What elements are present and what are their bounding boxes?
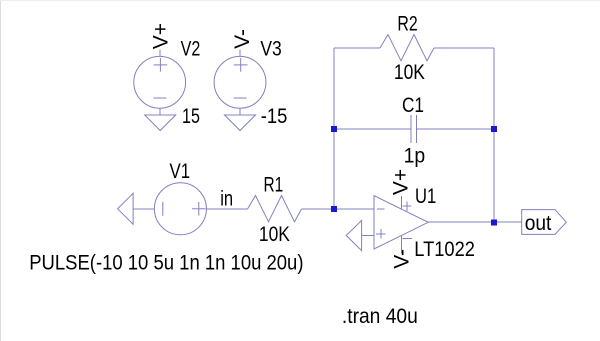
junction at inverting input node: [331, 206, 337, 212]
svg-text:V+: V+: [390, 169, 413, 195]
wire right feedback vertical: [493, 48, 495, 222]
ground flag left of V1: [118, 193, 134, 224]
wire V1 to R1: [206, 208, 247, 210]
svg-text:C1: C1: [402, 94, 424, 117]
svg-text:10K: 10K: [259, 223, 290, 246]
ground below V2: [145, 115, 176, 131]
wire V1 negative lead: [133, 208, 154, 210]
wire V2 top stub: [159, 49, 161, 56]
junction at output node: [491, 219, 497, 225]
op-amp U1: [374, 196, 428, 254]
svg-text:10K: 10K: [394, 61, 425, 84]
svg-text:in: in: [220, 187, 233, 210]
voltage source V3: [214, 56, 266, 108]
wire R1 to op-amp inverting input: [302, 208, 375, 210]
wire V3 top stub: [239, 49, 241, 56]
junction at C1 left: [331, 126, 337, 132]
svg-text:V-: V-: [390, 249, 413, 269]
svg-text:U1: U1: [415, 185, 436, 208]
wire op-amp output: [428, 221, 522, 223]
svg-text:1p: 1p: [404, 144, 426, 167]
svg-text:V2: V2: [181, 37, 201, 60]
ground flag at op-amp non-inverting input: [346, 220, 361, 250]
svg-text:R2: R2: [397, 13, 417, 36]
svg-text:.tran 40u: .tran 40u: [342, 305, 418, 328]
output port flag out: [522, 210, 567, 235]
wire non-inverting input: [362, 235, 374, 237]
wire C1 left: [334, 128, 411, 130]
voltage source V1: [154, 183, 206, 235]
svg-text:V3: V3: [260, 38, 281, 61]
svg-text:R1: R1: [264, 173, 284, 196]
svg-text:LT1022: LT1022: [414, 238, 475, 261]
junction at C1 right: [491, 126, 497, 132]
wire R2 left lead: [334, 47, 380, 49]
border top edge: [0, 0, 600, 1]
voltage source V2: [134, 56, 186, 108]
border left edge: [0, 0, 1, 341]
resistor R2: [380, 35, 434, 61]
wire C1 right: [417, 128, 495, 130]
wire V2 bottom stub: [159, 108, 161, 115]
svg-text:15: 15: [182, 105, 200, 128]
wire left feedback vertical: [333, 48, 335, 209]
resistor R1: [248, 196, 302, 222]
svg-text:-15: -15: [261, 105, 288, 128]
svg-text:V1: V1: [170, 160, 191, 183]
ground below V3: [225, 115, 256, 131]
wire V3 bottom stub: [239, 108, 241, 115]
svg-text:out: out: [525, 212, 552, 235]
wire R2 right lead: [434, 47, 494, 49]
svg-text:V+: V+: [150, 23, 173, 49]
svg-text:PULSE(-10 10 5u 1n 1n 10u 20u): PULSE(-10 10 5u 1n 1n 10u 20u): [29, 252, 303, 275]
capacitor C1: [411, 115, 417, 143]
svg-text:V-: V-: [231, 29, 254, 49]
